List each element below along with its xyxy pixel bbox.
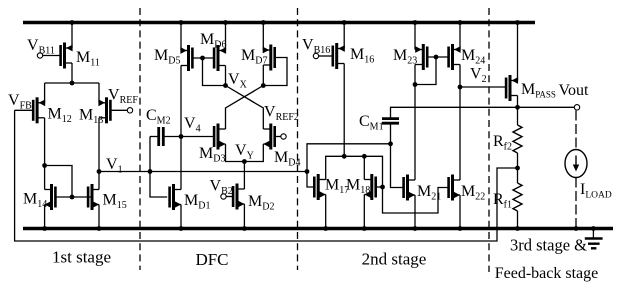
junction M15 source on rail [97,226,102,231]
terminal VREF [127,108,132,113]
wire M18 drain up [363,156,365,179]
junction M23 source on rail [413,20,418,25]
wire MD7 source to rail [262,23,264,51]
junction MD7 drain node [261,83,266,88]
junction M12/M14 drains [42,163,47,168]
junction node V2 [458,85,463,90]
wire MD5 source to rail [180,23,182,51]
transistor M16 PMOS [333,43,345,69]
terminal VREF2 [281,134,286,139]
junction M21 source on rail [413,226,418,231]
junction feedback tap [515,166,520,171]
wire V1 to M17 gate [307,172,314,188]
wire M12 drain down [44,118,46,166]
wire M12 source up [44,83,46,103]
junction M11 source on rail [70,20,75,25]
wire VSS bottom ground rail [23,227,613,230]
transistor MD1 NMOS [170,184,181,210]
wire M13 gate lead [110,109,127,111]
stage divider 2nd/3rd [488,8,490,272]
transistor MD7 PMOS [263,45,275,71]
svg-text:2nd stage: 2nd stage [362,250,427,269]
wire V1 to MD1 gate [150,172,167,198]
wire M24 source to rail [459,23,461,50]
junction M14 M15 gates [70,195,75,200]
junction node Vout [515,105,520,110]
junction M18 drain [362,154,367,159]
terminal VB11 [37,53,42,58]
junction M18 gate node [380,185,385,190]
wire mirror diode link [45,166,72,198]
current source ILOAD [565,150,587,178]
junction MD1 source on rail [179,226,184,231]
wire MD4 gate lead [275,136,281,138]
transistor M17 NMOS [314,174,325,200]
terminal Vout [574,105,579,110]
transistor M24 PMOS [449,44,461,70]
wire MD6 drain to VX [225,66,227,86]
stage divider DFC/2nd [297,8,299,270]
wire M11 drain to node [71,63,73,83]
transistor MD6 PMOS [214,45,226,71]
transistor M21 NMOS [404,175,415,201]
wire MD4 source to VY [244,144,263,162]
junction M11 drain [70,81,75,86]
wire M23 M24 gate wire [426,56,448,58]
wire MD1 source to rail [180,205,182,229]
junction node VX [223,83,228,88]
wire M15 drain up [98,172,100,190]
svg-text:3rd stage &: 3rd stage & [510,236,587,255]
wire MD6 source to rail [225,23,227,51]
transistor M12 PMOS [33,97,45,123]
junction MD6 source on rail [223,20,228,25]
junction M22 source on rail [458,226,463,231]
capacitor CM2 [150,127,163,146]
resistor Rf2 [513,125,522,153]
stage divider 1st/DFC [139,8,141,270]
svg-text:Vout: Vout [559,82,589,99]
junction M24 source on rail [458,20,463,25]
wire MD7 gate diode link [263,58,287,86]
wire cross VX to MD4 drain [226,86,264,130]
wire M23 source to rail [414,23,416,50]
wire MD7 drain down [262,65,264,86]
wire M11 source to rail [71,23,73,49]
wire Vout to Rf2 [517,107,519,125]
capacitor CM1 [382,119,399,124]
junction node V1 [97,169,102,174]
junction V1 to DFC tap [148,169,153,174]
transistor MD4 NMOS [263,124,274,150]
wire VY to MD2 drain [243,162,245,190]
wire M24 drain / M22 drain vertical [459,65,461,181]
junction CM1 to V1 link [388,141,393,146]
junction MD5 MD6 gates [200,56,205,61]
junction M16 drain [342,154,347,159]
transistor MD5 PMOS [180,45,192,71]
wire ILOAD to rail dashed [575,178,577,229]
transistor MD3 NMOS [214,124,225,150]
wire cross MD7 drain to MD3 drain [226,86,264,130]
svg-text:Feed-back stage: Feed-back stage [495,265,599,282]
transistor M15 NMOS [88,184,99,210]
junction ground on rail [591,226,596,231]
junction ILOAD on rail [574,226,579,231]
wire M16 source to rail [343,23,345,49]
wire M16 gate lead [319,55,333,57]
wire MD5 drain to V4 [180,66,182,137]
wire M14 drain up [44,166,46,190]
wire CM2 right plate to V4 and MD3 gate [163,136,214,138]
transistor M23 PMOS [415,44,427,70]
junction Rf1 on rail [515,226,520,231]
wire MPASS drain to Vout [517,96,519,108]
wire VB11 gate lead [43,55,61,57]
wire M18 source to rail [363,195,365,229]
junction MPASS source on rail [515,20,520,25]
wire Vout to ILOAD dashed [575,111,577,150]
wire MD1 drain up to V4 [180,137,182,190]
transistor M11 PMOS [61,43,73,69]
wire M17 source to rail [325,195,327,229]
wire MD2 source to rail [243,204,245,229]
wire M12 M13 common source [45,82,99,84]
junction MD7 source on rail [261,20,266,25]
wire M23 diode link [415,57,436,85]
terminal VB16 [313,53,318,58]
junction node V4 [179,134,184,139]
wire MD5 MD6 gate wire [192,57,214,59]
wire VDD top supply rail [23,21,535,24]
wire net VFB feedback loop [15,110,518,241]
wire M14 source to rail [44,205,46,229]
wire M22 source to rail [459,195,461,229]
wire Rf1 to rail [517,211,519,229]
junction MD5 source on rail [179,20,184,25]
wire Vout horizontal [518,106,575,108]
wire M16 drain down [343,64,345,157]
resistor Rf1 [513,183,522,211]
wire CM1 to M21 gate [391,144,403,188]
junction M18 source on rail [362,226,367,231]
wire M15 source to rail [98,205,100,229]
junction node VY [242,159,247,164]
junction M17 source on rail [323,226,328,231]
transistor MD2 NMOS [233,184,244,210]
transistor M22 NMOS [449,175,460,201]
terminal VB2 [221,194,226,199]
junction V1 to 2nd stage [305,169,310,174]
wire MPASS source to rail [517,23,519,81]
wire CM2 left to V1 [149,137,151,172]
wire diode node M17-M18-M22 [326,156,449,213]
wire net V2 to MPASS gate [460,86,506,88]
wire M23 drain / M21 drain vertical [414,65,416,181]
svg-text:DFC: DFC [195,250,228,269]
wire MD3 source to VY [226,144,245,162]
junction MD2 source on rail [242,226,247,231]
wire M13 drain to V1 [98,118,100,172]
junction M14 source on rail [42,226,47,231]
wire gates to VX [203,58,226,86]
wire CM1 top to Vout [391,107,518,118]
wire Rf2 to Rf1 [517,153,519,183]
wire MD2 gate lead [226,196,233,198]
junction M23 M24 gates [434,55,439,60]
wire M13 source up [98,83,100,103]
transistor MPASS PMOS [506,75,518,101]
svg-text:1st stage: 1st stage [52,248,111,267]
wire M14 M15 gate wire [55,196,91,198]
wire CM1 bottom lead [390,123,392,144]
wire M21 source to rail [414,195,416,229]
ground symbol [585,229,603,249]
junction M16 source on rail [342,20,347,25]
wire V1 link horizontal [307,144,391,172]
transistor M14 NMOS [45,184,56,210]
transistor M18 NMOS [364,174,375,200]
wire M18 gate lead [376,186,383,188]
wire net V1 horizontal [99,171,307,173]
wire M12 gate lead VFB [15,109,34,111]
transistor M13 PMOS [98,97,110,123]
junction M23 drain node [413,82,418,87]
